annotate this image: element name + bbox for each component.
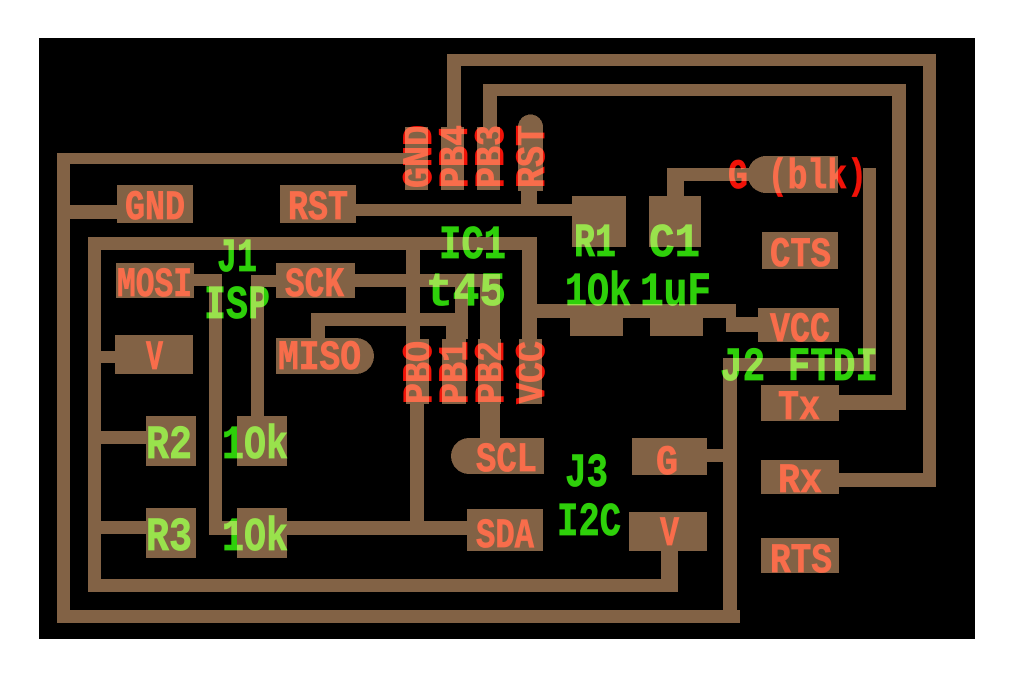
- wire J1 column vertical (MOSI/SDA net): [209, 274, 222, 535]
- svg-text:G (blk): G (blk): [728, 153, 867, 201]
- svg-text:VCC: VCC: [509, 341, 557, 404]
- svg-text:SCK: SCK: [285, 261, 345, 309]
- svg-text:I2C: I2C: [557, 497, 621, 550]
- wire right second vertical (Tx net): [892, 84, 906, 410]
- svg-text:SCL: SCL: [476, 436, 537, 484]
- pad G(blk) oval: [748, 156, 839, 193]
- svg-text:RST: RST: [288, 184, 348, 232]
- wire Rx trace: [839, 473, 936, 487]
- pad RST (J1): [280, 185, 356, 223]
- svg-text:1Ok: 1Ok: [222, 512, 288, 565]
- svg-text:CTS: CTS: [770, 231, 831, 279]
- svg-text:J3: J3: [565, 448, 608, 501]
- pad GND (J1): [117, 185, 193, 223]
- wire Tx trace: [839, 395, 906, 410]
- svg-text:MOSI: MOSI: [117, 261, 192, 309]
- wire MOSI stub to J1 column: [193, 274, 222, 286]
- wire PB3 stub up: [483, 84, 497, 133]
- pad MOSI (J1): [116, 263, 194, 298]
- wire PB4 stub up: [447, 54, 461, 133]
- wire bottom outer horizontal (GND): [57, 610, 740, 623]
- svg-text:R3: R3: [146, 512, 192, 565]
- wire R3 stub: [101, 521, 146, 534]
- pad R1 bottom: [570, 304, 623, 336]
- pad SDA (J3): [467, 509, 543, 551]
- svg-text:GND: GND: [125, 184, 185, 232]
- wire PB0 lower stub to SDA: [410, 404, 424, 535]
- pad C1 bottom: [650, 304, 703, 336]
- pad IC1 RST pill: [518, 115, 543, 192]
- pad MISO pill (J1): [276, 338, 374, 374]
- wire MISO right turn down to PB1 pad: [446, 313, 460, 339]
- wire stub to GND pad: [57, 205, 119, 219]
- wire SDA horizontal: [209, 521, 467, 535]
- pad R3 right 10k: [237, 508, 287, 558]
- svg-text:Rx: Rx: [778, 457, 822, 505]
- svg-text:J2 FTDI: J2 FTDI: [720, 342, 878, 395]
- pad V (J3): [629, 512, 707, 551]
- svg-text:MISO: MISO: [278, 334, 361, 382]
- wire top second (PB3 to Tx vertical): [484, 84, 906, 96]
- wire VCC step to FTDI VCC pad: [726, 317, 760, 332]
- pad R2 left: [146, 416, 196, 466]
- pad IC1 GND: [405, 127, 428, 190]
- svg-text:V: V: [660, 510, 680, 558]
- wire PB0 upper stub: [406, 250, 420, 339]
- svg-text:1uF: 1uF: [640, 267, 711, 320]
- svg-text:RTS: RTS: [770, 537, 832, 585]
- pad R3 left: [146, 508, 196, 558]
- pad VCC (J2): [758, 308, 839, 342]
- svg-text:J1: J1: [217, 233, 257, 286]
- svg-text:1Ok: 1Ok: [222, 420, 288, 473]
- wire G(J3) stub: [707, 449, 723, 462]
- svg-text:t45: t45: [426, 267, 506, 320]
- wire SCK right trace: [355, 274, 500, 287]
- wire MISO horizontal: [311, 313, 460, 326]
- wire SCK left stub to R2 pullup: [251, 275, 276, 287]
- svg-text:C1: C1: [649, 218, 700, 271]
- pad Rx (J2): [761, 460, 839, 494]
- pad IC1 PB2: [478, 339, 501, 404]
- pad Tx (J2): [761, 385, 839, 421]
- wire J2 G vertical (GND): [723, 358, 737, 622]
- pad IC1 PB4: [441, 127, 464, 190]
- pad G (J3): [632, 438, 707, 475]
- wire top outer (PB4 to Rx vertical): [447, 54, 936, 66]
- svg-text:SDA: SDA: [476, 512, 535, 560]
- wire left second vertical (VCC): [88, 237, 101, 592]
- wire RST horizontal: [356, 204, 574, 216]
- wire right outer vertical (Rx net): [923, 54, 936, 487]
- pad R1 top: [572, 196, 626, 247]
- wire SCK down branch to PB1: [455, 287, 468, 339]
- wire V(J3) stub down: [661, 551, 678, 591]
- svg-text:1Ok: 1Ok: [565, 267, 631, 320]
- svg-text:V: V: [146, 334, 164, 382]
- svg-text:RST: RST: [509, 125, 557, 188]
- wire VCC jog horizontal: [522, 304, 736, 318]
- pad IC1 VCC: [519, 339, 542, 404]
- pad C1 top: [649, 196, 701, 247]
- svg-text:R1: R1: [574, 218, 616, 271]
- wire GND band under J2 FTDI: [723, 358, 876, 371]
- wire MISO pill stub: [311, 313, 325, 338]
- wire left outer vertical (GND): [57, 153, 70, 622]
- svg-text:IC1: IC1: [439, 220, 506, 273]
- pad SCK (J1): [276, 263, 355, 298]
- pad IC1 PB0: [406, 339, 429, 404]
- pad R2 right 10k: [237, 416, 287, 466]
- wire bottom inner horizontal (VCC): [88, 579, 678, 592]
- wire RST pill stub: [521, 191, 537, 206]
- wire PB2 column: [480, 274, 500, 444]
- wire VCC horizontal (under IC1): [88, 237, 537, 250]
- svg-text:R2: R2: [146, 420, 192, 473]
- wire R2 stub: [101, 431, 146, 444]
- wire GND horizontal to IC pad GND: [57, 153, 407, 164]
- pad IC1 PB3: [477, 127, 500, 190]
- wire VCC column vertical: [522, 250, 537, 339]
- pad V (J1): [115, 335, 193, 374]
- pad IC1 PB1: [442, 339, 466, 404]
- wire V(J1) stub: [101, 351, 129, 363]
- wire G(blk) down vertical: [863, 168, 876, 371]
- svg-text:G: G: [656, 439, 678, 487]
- wire R2 pullup vertical: [251, 275, 264, 416]
- pad SCL pill (J3): [451, 438, 544, 474]
- pad CTS (J2): [762, 232, 838, 269]
- svg-text:ISP: ISP: [204, 280, 270, 333]
- wire C1 top stub: [667, 168, 684, 196]
- pad RTS (J2): [761, 538, 839, 573]
- wire C1 to G(blk) oval horizontal: [667, 168, 760, 181]
